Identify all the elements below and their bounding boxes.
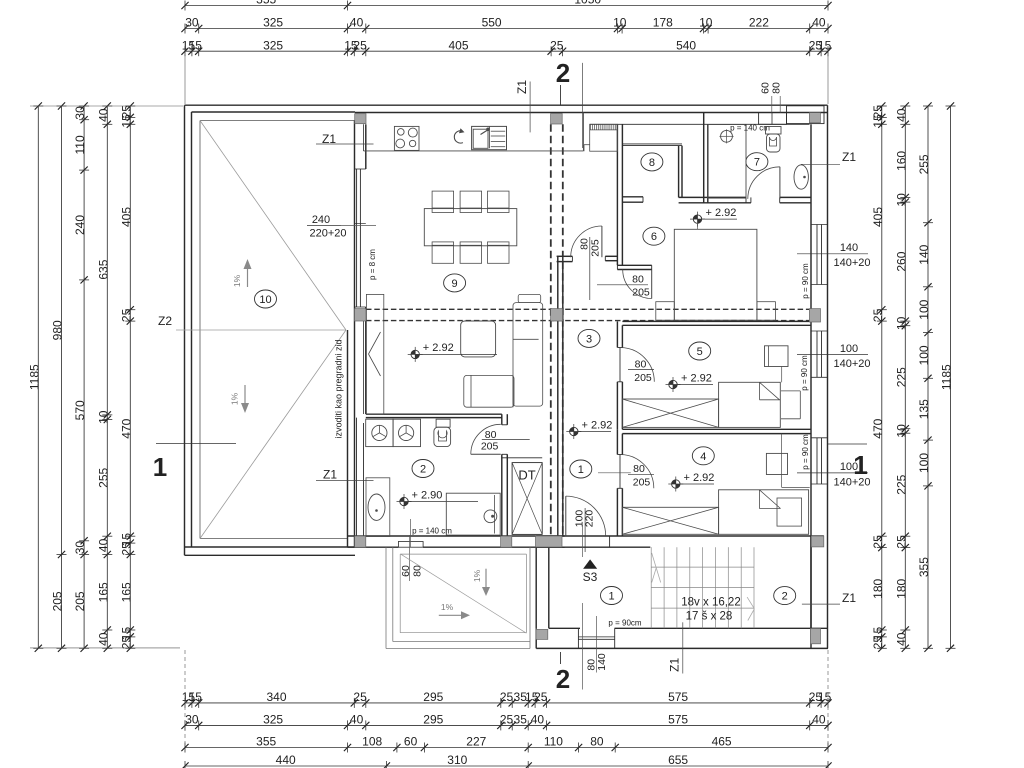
svg-text:255: 255: [917, 154, 931, 174]
svg-text:25: 25: [119, 542, 133, 556]
door label 80/205 rotated: [578, 237, 601, 300]
svg-text:470: 470: [119, 418, 133, 438]
svg-text:80: 80: [632, 273, 644, 285]
svg-text:25: 25: [500, 690, 514, 704]
svg-text:10: 10: [894, 193, 908, 207]
svg-text:15: 15: [818, 690, 832, 704]
svg-text:p = 140 cm: p = 140 cm: [412, 527, 452, 536]
svg-text:40: 40: [812, 713, 826, 727]
svg-text:60: 60: [404, 735, 418, 749]
door room 5: [620, 348, 654, 382]
svg-text:575: 575: [668, 713, 688, 727]
svg-text:30: 30: [73, 541, 87, 555]
svg-text:178: 178: [653, 16, 673, 30]
level mark room5 +2.92: [666, 372, 714, 392]
bed room 4: [719, 490, 809, 535]
door label bath 80/205: [481, 429, 530, 453]
svg-text:165: 165: [96, 582, 110, 602]
svg-text:80: 80: [412, 565, 424, 577]
svg-text:+ 2.92: + 2.92: [681, 372, 712, 384]
svg-text:5: 5: [697, 346, 703, 358]
kitchen counter front: [364, 113, 584, 151]
room label 3: [578, 329, 600, 347]
coffee table: [461, 321, 496, 357]
svg-text:p = 90cm: p = 90cm: [608, 619, 641, 628]
door hall-bathroom: [471, 424, 501, 454]
svg-text:575: 575: [668, 690, 688, 704]
svg-text:227: 227: [466, 735, 486, 749]
svg-text:40: 40: [894, 108, 908, 122]
svg-text:100: 100: [917, 453, 931, 473]
svg-text:1%: 1%: [232, 274, 242, 287]
svg-text:60: 60: [400, 565, 412, 577]
svg-text:405: 405: [871, 207, 885, 227]
svg-text:225: 225: [894, 474, 908, 494]
svg-text:80: 80: [633, 463, 645, 475]
svg-text:225: 225: [894, 367, 908, 387]
dimension col right-2: [894, 102, 910, 652]
svg-text:10: 10: [699, 16, 713, 30]
svg-text:10: 10: [894, 316, 908, 330]
svg-text:10: 10: [613, 16, 627, 30]
washing machines: [366, 419, 421, 446]
door room 7: [748, 167, 780, 199]
garage roof diagonal upper: [200, 121, 346, 331]
svg-text:15: 15: [189, 690, 203, 704]
room 8 walls: [622, 144, 700, 203]
cooktop: [394, 126, 419, 150]
svg-text:80: 80: [771, 82, 783, 94]
room 7 walls: [700, 113, 811, 203]
svg-text:205: 205: [590, 239, 602, 257]
svg-text:222: 222: [749, 16, 769, 30]
svg-text:p = 90 cm: p = 90 cm: [801, 263, 810, 299]
door label room4 80/205: [628, 463, 654, 489]
svg-text:1: 1: [608, 591, 614, 603]
svg-text:160: 160: [894, 151, 908, 171]
svg-text:1: 1: [578, 464, 584, 476]
level mark room6 +2.92: [690, 207, 737, 227]
entrance door labels: [583, 603, 608, 690]
svg-text:405: 405: [448, 38, 468, 52]
svg-text:550: 550: [482, 16, 502, 30]
section line 2-2 dashed pair: [551, 124, 563, 536]
bed room 5: [719, 382, 781, 427]
hall west wall: [558, 256, 563, 536]
section mark 2 bottom: [556, 652, 570, 694]
room label 4: [692, 447, 714, 465]
dimension col right-1: [871, 102, 887, 652]
svg-text:izvoditi kao pregradni zid: izvoditi kao pregradni zid: [334, 339, 344, 438]
bathroom north wall: [366, 414, 502, 417]
room label 1 lower: [601, 587, 623, 605]
svg-text:8: 8: [649, 157, 655, 169]
svg-text:1%: 1%: [441, 602, 454, 612]
svg-text:355: 355: [256, 0, 276, 7]
svg-text:135: 135: [917, 399, 931, 419]
svg-text:2: 2: [556, 58, 570, 88]
svg-text:Z1: Z1: [515, 80, 529, 94]
nightstand room6 right: [757, 302, 776, 321]
TV cabinet room 3: [366, 294, 383, 414]
svg-text:Z1: Z1: [668, 657, 682, 671]
svg-text:1185: 1185: [27, 364, 41, 390]
svg-text:140+20: 140+20: [833, 358, 870, 370]
svg-text:355: 355: [256, 735, 276, 749]
toilet in bathroom: [434, 419, 451, 446]
svg-text:405: 405: [119, 207, 133, 227]
wall room6/room5: [622, 321, 811, 325]
svg-text:+ 2.90: + 2.90: [412, 489, 443, 501]
dimension col left-4: [96, 102, 112, 652]
label Z1 room7: [801, 150, 856, 164]
svg-text:2: 2: [556, 664, 570, 694]
room label 10: [255, 290, 277, 308]
svg-text:440: 440: [276, 753, 296, 767]
garage ridge line: [176, 329, 346, 331]
terrace slope arrow down 1%: [472, 569, 490, 596]
svg-text:110: 110: [73, 135, 87, 154]
dimension row bottom-D: [181, 753, 831, 768]
level mark room4 +2.92: [668, 472, 714, 492]
room label 6: [643, 227, 665, 245]
toilet room 7: [766, 127, 782, 153]
extension line bottom-left: [30, 648, 185, 745]
svg-text:540: 540: [676, 38, 696, 52]
svg-text:980: 980: [51, 320, 65, 340]
svg-text:340: 340: [266, 690, 286, 704]
svg-text:25: 25: [500, 713, 514, 727]
washbasin bathroom: [366, 478, 390, 537]
top wall (north facade): [355, 106, 828, 125]
svg-text:295: 295: [423, 690, 443, 704]
svg-text:2: 2: [420, 464, 426, 476]
DT shaft: [502, 458, 542, 535]
bathroom east wall with door opening: [502, 414, 508, 536]
svg-text:4: 4: [700, 451, 706, 463]
hall north wall with door opening: [557, 256, 618, 261]
svg-text:180: 180: [894, 578, 908, 598]
svg-text:25: 25: [871, 535, 885, 549]
svg-text:325: 325: [263, 38, 283, 52]
svg-text:325: 325: [263, 713, 283, 727]
desk room 5: [765, 346, 789, 383]
svg-text:40: 40: [96, 538, 110, 552]
west wall of room 4 with door opening: [617, 429, 622, 536]
garage outer walls (room 10): [185, 105, 828, 555]
label Z1 bath: [316, 468, 374, 482]
svg-text:25: 25: [871, 636, 885, 650]
svg-text:100: 100: [917, 299, 931, 319]
svg-text:+ 2.92: + 2.92: [706, 207, 737, 219]
dashed future partition line: [366, 309, 809, 320]
svg-text:40: 40: [350, 713, 364, 727]
door label 100/220: [573, 508, 595, 552]
wardrobe room 4: [622, 507, 718, 534]
terrace slope arrow right 1%: [439, 602, 470, 619]
room 6 north wall stub: [617, 265, 651, 269]
svg-text:6: 6: [651, 231, 657, 243]
svg-text:140+20: 140+20: [833, 257, 870, 269]
dimension row top-1: [181, 0, 831, 11]
svg-text:3: 3: [586, 333, 592, 345]
svg-text:100: 100: [917, 345, 931, 365]
level mark living +2.92: [408, 342, 497, 362]
svg-text:240: 240: [312, 214, 330, 226]
level mark bath +2.90: [397, 489, 479, 509]
svg-text:DT: DT: [518, 468, 535, 483]
chimney labels 60/80: [760, 82, 783, 112]
label Z2 garage: [158, 314, 172, 328]
svg-text:25: 25: [871, 308, 885, 322]
svg-text:Z2: Z2: [158, 314, 172, 328]
svg-text:205: 205: [634, 372, 652, 384]
svg-text:40: 40: [812, 16, 826, 30]
svg-text:205: 205: [51, 591, 65, 611]
extension line top-right: [827, 55, 829, 104]
stairs text: [681, 597, 740, 623]
concrete column blocks: [355, 113, 824, 644]
dimension col left-1: [27, 102, 43, 652]
svg-text:205: 205: [632, 287, 650, 299]
svg-text:7: 7: [754, 157, 760, 169]
svg-text:310: 310: [447, 753, 467, 767]
shower room 7: [708, 125, 746, 199]
window dim 100/140+20 mid: [797, 343, 871, 370]
svg-text:100: 100: [840, 343, 858, 355]
dimension col right-3: [917, 102, 933, 652]
svg-text:p = 90 cm: p = 90 cm: [801, 434, 810, 470]
svg-text:1%: 1%: [472, 569, 482, 582]
svg-text:240: 240: [73, 215, 87, 235]
svg-text:110: 110: [544, 735, 563, 749]
svg-text:205: 205: [633, 477, 651, 489]
staircase: [651, 547, 754, 628]
door label room6 80/205: [597, 273, 650, 298]
svg-text:1: 1: [153, 452, 167, 482]
garage window dim 240/220+20: [307, 214, 376, 240]
svg-text:25: 25: [550, 38, 564, 52]
desk room 4: [766, 434, 809, 488]
svg-text:260: 260: [894, 251, 908, 271]
text p140 bath: [411, 519, 453, 547]
label Z1 stairs: [802, 591, 856, 605]
svg-text:25: 25: [119, 308, 133, 322]
dimension row bottom-A: [181, 690, 831, 708]
svg-text:10: 10: [894, 424, 908, 438]
S3 marker: [583, 525, 598, 584]
svg-text:465: 465: [712, 735, 732, 749]
svg-text:40: 40: [894, 632, 908, 646]
svg-text:15: 15: [189, 38, 203, 52]
svg-text:205: 205: [481, 441, 499, 453]
svg-text:Z1: Z1: [842, 591, 856, 605]
svg-text:9: 9: [452, 278, 458, 290]
door hall-stairs 100/220: [566, 496, 610, 547]
svg-text:255: 255: [96, 467, 110, 487]
south wall of bath with terrace door: [348, 536, 565, 547]
wall room5/room4: [622, 429, 811, 433]
right outer wall with windows: [811, 105, 828, 648]
door hall-living: [571, 226, 602, 257]
svg-text:25: 25: [119, 636, 133, 650]
svg-text:1%: 1%: [230, 392, 240, 405]
svg-text:205: 205: [73, 591, 87, 611]
svg-text:17 š x 28: 17 š x 28: [686, 611, 733, 623]
dimension row bottom-C: [181, 735, 831, 753]
staircase zone outer walls: [536, 536, 828, 648]
dining table with 6 chairs: [424, 191, 517, 263]
dimension col right-4: [940, 102, 956, 652]
corridor wardrobe niche: [584, 124, 618, 151]
svg-text:p = 140 cm: p = 140 cm: [730, 124, 770, 133]
svg-text:80: 80: [578, 238, 590, 250]
svg-text:180: 180: [871, 578, 885, 598]
svg-text:10: 10: [259, 294, 271, 306]
svg-text:10: 10: [96, 410, 110, 424]
svg-text:108: 108: [362, 735, 382, 749]
bed room 6: [674, 221, 757, 321]
terrace door labels 60/80: [400, 535, 424, 581]
kitchen sink: [472, 126, 507, 149]
svg-text:15: 15: [119, 114, 133, 128]
label Z1 bottom rotated: [668, 622, 683, 673]
terrace outline: [386, 547, 530, 648]
svg-text:Z1: Z1: [323, 468, 337, 482]
washbasin room 7: [794, 165, 808, 189]
svg-text:+ 2.92: + 2.92: [423, 342, 454, 354]
svg-text:40: 40: [350, 16, 364, 30]
svg-text:1: 1: [853, 450, 867, 480]
svg-text:140: 140: [917, 244, 931, 264]
extension line top-left corner: [30, 55, 185, 106]
svg-text:+ 2.92: + 2.92: [582, 419, 613, 431]
garage roof diagonal lower: [200, 330, 346, 539]
room label 5: [689, 342, 711, 360]
svg-text:40: 40: [96, 108, 110, 122]
svg-text:635: 635: [96, 259, 110, 279]
svg-text:15: 15: [871, 114, 885, 128]
dimension row top-3: [181, 38, 831, 56]
svg-text:140: 140: [840, 242, 858, 254]
svg-text:40: 40: [531, 713, 545, 727]
window dim 100/140+20 low: [797, 461, 871, 489]
svg-text:1050: 1050: [574, 0, 601, 7]
wardrobe room 5: [622, 399, 718, 427]
svg-text:40: 40: [96, 632, 110, 646]
garage slope arrow up 1%: [232, 259, 252, 287]
svg-text:165: 165: [119, 582, 133, 602]
svg-text:295: 295: [423, 713, 443, 727]
svg-text:470: 470: [871, 418, 885, 438]
door room 4: [620, 455, 654, 489]
section mark 2 top: [556, 58, 570, 105]
door room 6: [623, 270, 652, 299]
kitchen C-symbol: [454, 131, 463, 143]
garage slope arrow down 1%: [230, 385, 250, 413]
west interior wall with garage window: [348, 121, 366, 548]
sofa L-shaped: [464, 294, 543, 407]
room label 2 stairs: [774, 587, 796, 605]
svg-text:355: 355: [917, 557, 931, 577]
svg-text:1185: 1185: [940, 364, 954, 390]
west wall of room 5 with door opening: [617, 321, 622, 429]
svg-text:35: 35: [514, 713, 528, 727]
window dim 140/140+20: [797, 242, 871, 269]
svg-text:+ 2.92: + 2.92: [684, 472, 715, 484]
extension line bottom-right: [827, 650, 829, 745]
section mark 1 right: [828, 444, 868, 480]
svg-text:80: 80: [590, 735, 604, 749]
label Z1 kitchen: [316, 132, 374, 146]
room label 2 bath: [412, 460, 434, 478]
svg-text:25: 25: [534, 690, 548, 704]
dimension col left-2: [51, 102, 67, 652]
section mark 1 left: [153, 444, 236, 483]
svg-text:220+20: 220+20: [309, 228, 346, 240]
nightstand room6 left: [656, 302, 675, 321]
dimension col left-5: [119, 102, 135, 652]
dimension col left-3: [73, 102, 89, 652]
svg-text:30: 30: [73, 106, 87, 120]
svg-text:15: 15: [818, 38, 832, 52]
room label 8: [641, 153, 663, 171]
svg-text:p = 8 cm: p = 8 cm: [368, 249, 377, 280]
svg-text:570: 570: [73, 400, 87, 420]
room label 9: [444, 274, 466, 292]
svg-text:80: 80: [635, 358, 647, 370]
svg-text:18v x 16,22: 18v x 16,22: [681, 597, 740, 609]
room label 1 upper: [570, 460, 631, 478]
svg-text:140: 140: [596, 653, 608, 671]
svg-text:25: 25: [353, 690, 367, 704]
dimension row top-2: [181, 16, 831, 34]
svg-text:655: 655: [668, 753, 688, 767]
svg-text:325: 325: [263, 16, 283, 30]
door label room5 80/205: [628, 358, 654, 384]
room label 7: [746, 153, 768, 171]
bedroom-wing west wall upper: [617, 124, 622, 269]
label Z1 top section: [515, 63, 583, 148]
shower bathroom: [446, 493, 500, 535]
svg-text:Z1: Z1: [842, 150, 856, 164]
dimension row bottom-B: [181, 713, 831, 731]
svg-text:30: 30: [185, 16, 199, 30]
svg-text:25: 25: [353, 38, 367, 52]
svg-text:25: 25: [894, 535, 908, 549]
svg-text:S3: S3: [583, 570, 598, 584]
svg-text:30: 30: [185, 713, 199, 727]
svg-text:2: 2: [782, 591, 788, 603]
level mark hall +2.92: [566, 419, 612, 439]
nightstand room 5: [781, 391, 800, 419]
svg-text:p = 90 cm: p = 90 cm: [800, 355, 809, 391]
